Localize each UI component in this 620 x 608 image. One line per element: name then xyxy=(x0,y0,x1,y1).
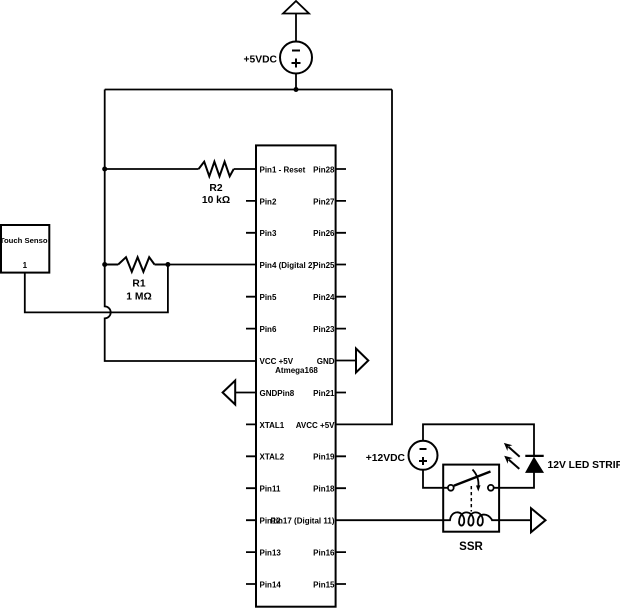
svg-text:1: 1 xyxy=(23,261,28,270)
svg-text:1 MΩ: 1 MΩ xyxy=(126,292,151,303)
SSR box xyxy=(443,465,499,532)
touch sensor box xyxy=(1,225,49,273)
wire LED bottom to switch right xyxy=(494,472,534,488)
power flag arrow (up triangle) xyxy=(283,1,309,14)
IC U1 Atmega168 box xyxy=(256,145,336,606)
relay coil L1 xyxy=(443,512,499,525)
V2 minus sign xyxy=(420,448,427,450)
svg-text:Pin26: Pin26 xyxy=(313,229,335,238)
svg-text:Pin2: Pin2 xyxy=(260,197,277,206)
wire flag to source V1 xyxy=(295,14,297,42)
svg-text:Pin4 (Digital 2): Pin4 (Digital 2) xyxy=(260,261,316,270)
svg-text:AVCC +5V: AVCC +5V xyxy=(296,421,335,430)
junction dot Pin1 wire xyxy=(102,167,107,172)
svg-text:R2: R2 xyxy=(209,183,222,194)
junction dot rail/V1 xyxy=(294,87,299,92)
junction dot R1 left xyxy=(102,262,107,267)
svg-text:VCC +5V: VCC +5V xyxy=(260,357,294,366)
svg-text:GND: GND xyxy=(317,357,335,366)
voltage source V1 +5VDC circle xyxy=(280,42,312,74)
wire R2 to Pin1 xyxy=(234,168,256,170)
svg-text:Pin24: Pin24 xyxy=(313,293,335,302)
wire V2 bottom to switch left xyxy=(423,470,448,488)
switch contact right xyxy=(488,485,494,491)
svg-text:10 kΩ: 10 kΩ xyxy=(202,195,230,206)
LED D1 cathode bar xyxy=(525,455,543,457)
SSR right flag arrow xyxy=(531,508,546,532)
svg-text:Pin14: Pin14 xyxy=(260,580,282,589)
+5V rail wire xyxy=(105,89,392,91)
svg-text:Pin5: Pin5 xyxy=(260,293,277,302)
wire Pin17 to SSR coil xyxy=(336,519,444,521)
V1 minus sign xyxy=(292,50,300,52)
wire R1 right to Pin4 xyxy=(168,264,256,266)
GND right flag arrow xyxy=(356,349,368,373)
wire V1 bottom to +5V rail xyxy=(295,74,297,90)
switch actuation arrow xyxy=(473,470,479,488)
LED D1 triangle xyxy=(526,458,542,472)
svg-text:R1: R1 xyxy=(132,279,145,290)
wire AVCC +5V to rail xyxy=(336,90,392,425)
pin stubs right xyxy=(336,169,346,584)
svg-text:Pin27: Pin27 xyxy=(313,197,335,206)
svg-text:Touch Sensor: Touch Sensor xyxy=(0,236,51,245)
svg-text:GNDPin8: GNDPin8 xyxy=(260,389,295,398)
switch blade xyxy=(454,472,491,486)
wire coil to right arrow xyxy=(499,519,531,521)
svg-text:Pin15: Pin15 xyxy=(313,580,335,589)
wire V2 top to LED top xyxy=(423,424,534,456)
junction dot R1 right / sensor wire xyxy=(165,262,170,267)
svg-text:Pin17 (Digital 11): Pin17 (Digital 11) xyxy=(270,517,334,526)
svg-text:Pin25: Pin25 xyxy=(313,261,335,270)
svg-text:Pin28: Pin28 xyxy=(313,165,335,174)
svg-text:XTAL2: XTAL2 xyxy=(260,453,285,462)
V1 plus sign xyxy=(292,59,301,68)
svg-text:XTAL1: XTAL1 xyxy=(260,421,285,430)
V2 plus sign xyxy=(419,457,427,465)
svg-text:Pin3: Pin3 xyxy=(260,229,277,238)
LED emission arrow upper xyxy=(504,443,520,457)
LED emission arrow lower xyxy=(504,456,519,469)
svg-text:Atmega168: Atmega168 xyxy=(275,366,318,375)
svg-text:Pin6: Pin6 xyxy=(260,325,277,334)
svg-text:Pin16: Pin16 xyxy=(313,549,335,558)
svg-text:Pin18: Pin18 xyxy=(313,485,335,494)
svg-text:SSR: SSR xyxy=(459,541,483,553)
wire GND pin to right arrow xyxy=(336,360,356,362)
voltage source V2 +12VDC circle xyxy=(409,441,438,470)
wire sensor to R1 junction xyxy=(25,265,168,313)
GND left flag arrow xyxy=(223,381,236,405)
svg-text:12V LED STRIP: 12V LED STRIP xyxy=(548,460,620,471)
dashed actuator link xyxy=(470,486,472,512)
svg-text:Pin11: Pin11 xyxy=(260,485,281,494)
pin stubs left xyxy=(246,201,256,584)
resistor R1 xyxy=(105,257,168,272)
left +5V vertical wire with hop over sensor wire xyxy=(105,90,256,362)
wire GND Pin8 to left arrow xyxy=(235,392,256,394)
wire rail to R2 xyxy=(105,168,199,170)
switch contact left xyxy=(448,485,454,491)
svg-text:Pin1 - Reset: Pin1 - Reset xyxy=(260,165,306,174)
svg-text:Pin23: Pin23 xyxy=(313,325,335,334)
resistor R2 xyxy=(199,162,234,177)
svg-text:+12VDC: +12VDC xyxy=(366,453,406,464)
svg-text:Pin19: Pin19 xyxy=(313,453,335,462)
svg-text:+5VDC: +5VDC xyxy=(244,55,278,66)
svg-text:Pin21: Pin21 xyxy=(313,389,335,398)
svg-text:Pin13: Pin13 xyxy=(260,549,282,558)
